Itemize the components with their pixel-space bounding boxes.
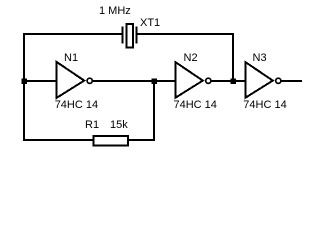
- label N1: [64, 53, 78, 64]
- wire right vertical (crystal branch down to node between N2 and N3): [232, 33, 234, 81]
- N3 triangle: [245, 62, 272, 98]
- inverter N2: [175, 62, 211, 98]
- wire N3 output horizontal: [281, 80, 302, 82]
- inverter N3: [245, 62, 281, 98]
- value label 1 MHz: [99, 6, 131, 17]
- wire N1 input horizontal: [23, 80, 57, 82]
- value label 15k: [110, 120, 128, 131]
- label R1: [85, 120, 99, 131]
- crystal XT1: [123, 24, 137, 48]
- N1 output bubble: [87, 78, 92, 83]
- junction node C (N2 output / crystal branch): [230, 78, 236, 84]
- wire N2 output to N3 input: [211, 80, 246, 82]
- label 74HC 14 (N2): [174, 100, 217, 111]
- inverter N1: [57, 62, 93, 98]
- crystal body rectangle: [127, 24, 134, 48]
- label N3: [253, 53, 267, 64]
- N1 triangle: [57, 62, 84, 98]
- junction node B (N1 output / feedback via R1): [151, 78, 157, 84]
- wire middle vertical (node between N1 and N2 down to resistor row): [153, 80, 155, 141]
- wire left vertical (feedback loop left side): [23, 33, 25, 141]
- designator label XT1: [140, 18, 160, 29]
- crystal right plate: [136, 27, 138, 44]
- crystal left plate: [122, 27, 124, 44]
- wire top-left horizontal (left corner to crystal left plate): [23, 33, 122, 35]
- wire top-right horizontal (crystal right plate to right corner): [137, 33, 234, 35]
- resistor R1 body: [93, 136, 128, 146]
- junction node A (left vertical / N1 input): [21, 78, 27, 84]
- label 74HC 14 (N1): [55, 100, 98, 111]
- wire bottom-right horizontal (resistor to middle vertical): [128, 139, 155, 141]
- wire N1 output to N2 input: [93, 80, 177, 82]
- label 74HC 14 (N3): [243, 100, 286, 111]
- label N2: [184, 53, 198, 64]
- N3 output bubble: [276, 78, 281, 83]
- wire bottom-left horizontal (left corner to resistor): [23, 139, 93, 141]
- N2 triangle: [175, 62, 203, 98]
- N2 output bubble: [206, 78, 211, 83]
